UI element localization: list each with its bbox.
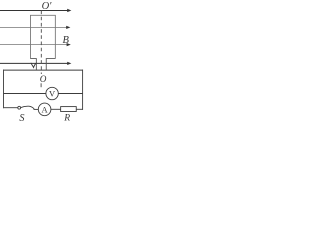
ammeter A — [38, 103, 51, 116]
wire: switch to ammeter — [34, 108, 39, 110]
switch lever — [21, 106, 35, 109]
wire: left rail — [3, 70, 5, 109]
wire: resistor to right rail — [76, 108, 83, 110]
field line B2 — [0, 26, 70, 29]
wire: top rail — [4, 69, 83, 71]
resistor R — [61, 107, 77, 112]
svg-text:V: V — [49, 88, 56, 98]
vessel outlet tube — [30, 59, 55, 70]
wire: right rail — [82, 70, 84, 110]
wire: bottom rail left (to switch) — [4, 107, 18, 109]
svg-text:A: A — [42, 105, 49, 115]
svg-text:R: R — [63, 112, 70, 123]
field line B4 — [0, 62, 71, 65]
field line B3 — [0, 43, 71, 46]
svg-text:O: O — [40, 74, 47, 84]
vessel (tank) — [30, 15, 55, 58]
wire: ammeter to resistor — [51, 108, 61, 110]
axis O'O dashed line — [40, 11, 42, 75]
wire: voltmeter branch left — [4, 93, 46, 95]
voltmeter V — [46, 87, 58, 99]
label v (efflux speed) — [31, 63, 37, 68]
field line B1 — [0, 9, 71, 12]
wire: voltmeter branch right — [58, 93, 82, 95]
axis dash below O — [40, 83, 42, 87]
svg-text:B: B — [63, 35, 70, 46]
switch contact circle — [18, 106, 21, 109]
svg-text:S: S — [19, 113, 24, 124]
svg-text:O′: O′ — [42, 1, 53, 12]
